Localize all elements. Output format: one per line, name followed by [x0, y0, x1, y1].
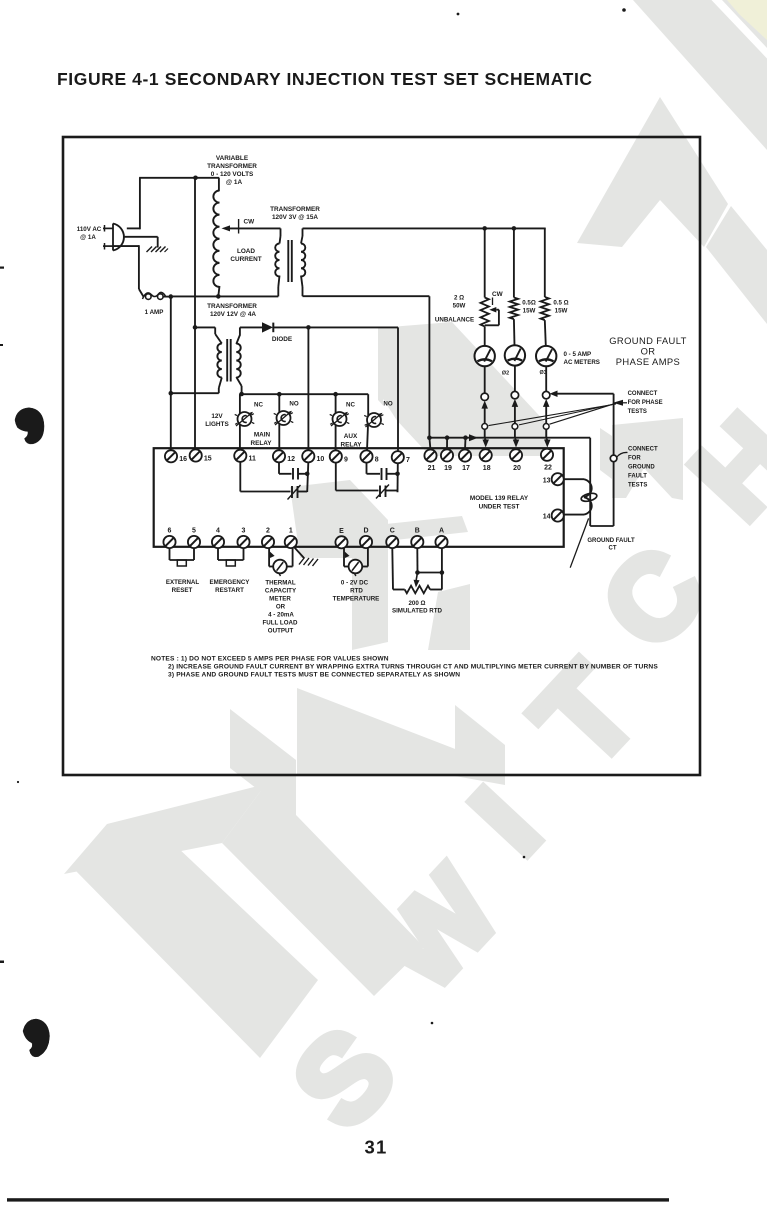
lamp L3 NC	[330, 412, 350, 426]
svg-text:3: 3	[242, 528, 246, 535]
svg-text:FIGURE 4-1 SECONDARY INJECTION: FIGURE 4-1 SECONDARY INJECTION TEST SET …	[57, 69, 593, 89]
pin label 20	[513, 465, 521, 472]
svg-text:OR: OR	[641, 346, 656, 357]
watermark chevron letter A	[577, 97, 728, 247]
wire plug mid to ground	[124, 237, 158, 248]
svg-text:A: A	[439, 528, 444, 535]
wire t13 to ct	[564, 478, 584, 480]
label MAIN RELAY	[250, 432, 272, 448]
wire lamp2 column	[278, 394, 280, 450]
wire t2 secondary bottom lead	[301, 276, 303, 297]
arrow down term3	[544, 429, 551, 447]
svg-text:CT: CT	[609, 546, 617, 552]
svg-text:1: 1	[289, 528, 293, 535]
thermal meter arrow	[270, 552, 275, 558]
node pot wiper	[415, 570, 420, 575]
wire neutral drop to t16	[170, 297, 172, 450]
svg-text:5: 5	[192, 528, 196, 535]
pin label 19	[444, 465, 452, 472]
ink blob upper left	[15, 408, 44, 444]
watermark chunk behind RTD bottomright	[428, 584, 470, 650]
svg-text:31: 31	[365, 1137, 388, 1158]
pin label 5	[192, 528, 196, 535]
watermark letter H	[667, 391, 767, 543]
transformer T3 core	[227, 339, 231, 382]
pin label A	[439, 528, 444, 535]
svg-text:TESTS: TESTS	[628, 483, 647, 489]
label 0.5 ohm 15W r2	[522, 300, 536, 315]
watermark yellow corner tint	[727, 0, 767, 40]
page number 31	[365, 1137, 388, 1158]
svg-text:FOR: FOR	[628, 456, 641, 462]
label EXTERNAL RESET	[166, 579, 200, 594]
svg-text:EMERGENCY: EMERGENCY	[210, 579, 251, 586]
svg-text:EXTERNAL: EXTERNAL	[166, 579, 200, 586]
wire t10 down	[307, 463, 308, 493]
terminal 17	[459, 450, 471, 462]
pin label 7	[406, 457, 410, 464]
wire r1 to meter	[484, 326, 486, 346]
svg-text:OUTPUT: OUTPUT	[268, 628, 294, 635]
wire bus to ct loop	[429, 437, 590, 439]
t1 ground diagonal	[295, 548, 305, 559]
meter M1	[475, 346, 495, 366]
capacitor C3 plates	[382, 468, 387, 480]
node diode t10 tee	[306, 325, 311, 330]
thermal meter M4 bracket	[269, 548, 293, 567]
watermark band right edge	[706, 206, 767, 324]
bus arrow	[469, 434, 478, 441]
svg-text:2 Ω: 2 Ω	[454, 295, 464, 302]
r1 wiper rheostat	[485, 307, 499, 325]
ct loop arcs	[584, 479, 592, 514]
svg-text:CONNECT: CONNECT	[628, 447, 658, 453]
svg-text:AC METERS: AC METERS	[564, 359, 600, 366]
svg-text:14: 14	[543, 514, 551, 521]
wire right riser down	[428, 296, 430, 438]
watermark letter W	[353, 845, 523, 1014]
terminal 9	[330, 450, 342, 462]
label 0-2V DC RTD TEMPERATURE	[333, 580, 380, 603]
label NO main	[289, 401, 298, 408]
diode D1	[262, 322, 273, 332]
wire t9 down	[336, 463, 379, 491]
svg-text:CW: CW	[492, 291, 504, 298]
pin label 3	[242, 528, 246, 535]
pin label 4	[216, 528, 220, 535]
banana point 1	[482, 424, 488, 430]
ground symbol near plug	[147, 247, 169, 253]
pin label 14	[543, 514, 551, 521]
pin label 12	[287, 456, 295, 463]
fuse F1 1 AMP	[143, 292, 166, 299]
watermark chunk behind caps	[290, 480, 388, 558]
ink blob lower left	[23, 1019, 50, 1057]
speck 4	[431, 1022, 434, 1025]
svg-text:13: 13	[543, 477, 551, 484]
node bus 21	[427, 435, 432, 440]
wire r1 top	[484, 228, 486, 297]
watermark chunk behind RTD left	[352, 534, 388, 650]
wire lamp3 column	[335, 394, 337, 450]
label NC main	[254, 402, 263, 409]
svg-text:DIODE: DIODE	[272, 336, 293, 343]
svg-text:200 Ω: 200 Ω	[408, 600, 425, 607]
svg-text:RESET: RESET	[172, 587, 193, 594]
node rail r2	[512, 226, 517, 231]
label UNBALANCE	[435, 317, 474, 324]
wire neutral rail	[171, 295, 278, 297]
title text	[57, 69, 593, 89]
svg-text:NOTES : 1) DO NOT EXCEED 5 AMP: NOTES : 1) DO NOT EXCEED 5 AMPS PER PHAS…	[151, 656, 389, 663]
svg-text:15: 15	[204, 455, 212, 462]
node neutral tee t16	[169, 391, 174, 396]
wire t3 sec top lead	[236, 327, 240, 344]
jack J3	[543, 391, 550, 398]
pin label 6	[168, 528, 172, 535]
svg-text:0.5Ω: 0.5Ω	[522, 300, 536, 307]
jack J1	[481, 393, 488, 400]
wire pot to A	[430, 548, 442, 590]
pin label 16	[179, 456, 187, 463]
pot wiper arrow	[414, 573, 420, 588]
terminal A	[435, 536, 447, 548]
pin label 21	[428, 465, 436, 472]
arrow up jack2	[512, 399, 519, 424]
svg-text:16: 16	[179, 456, 187, 463]
c2 variable slash	[288, 485, 301, 500]
wire lamp rail	[239, 393, 368, 395]
meter M5	[349, 560, 363, 576]
label CW r1	[492, 291, 504, 305]
svg-text:0 - 2V DC: 0 - 2V DC	[341, 580, 369, 587]
wire ct loop right riser	[613, 394, 615, 526]
label VARIABLE TRANSFORMER	[207, 155, 257, 186]
phase fan line 2	[519, 404, 616, 425]
terminal 7	[392, 451, 404, 463]
wire primary bottom horizontal	[171, 392, 219, 394]
node lamp rail 12	[277, 392, 282, 397]
svg-text:15W: 15W	[523, 308, 536, 315]
ct pointer line	[570, 518, 588, 567]
svg-text:110V AC: 110V AC	[77, 226, 102, 233]
capacitor C1 plates	[293, 468, 298, 480]
label GROUND FAULT OR PHASE AMPS	[609, 335, 687, 367]
jack ground fault	[610, 455, 617, 462]
speck 5	[17, 781, 19, 783]
ct core ellipse	[580, 492, 597, 503]
wire riser hot	[139, 178, 141, 230]
svg-text:UNBALANCE: UNBALANCE	[435, 317, 474, 324]
pin label C	[390, 528, 395, 535]
svg-text:SIMULATED RTD: SIMULATED RTD	[392, 608, 443, 615]
terminal 21	[424, 450, 436, 462]
wire B down	[416, 548, 418, 573]
c4 variable slash	[376, 485, 389, 499]
external reset switch S1	[170, 548, 195, 566]
phase fan arrowhead	[613, 400, 627, 406]
svg-text:120V 12V @ 4A: 120V 12V @ 4A	[210, 311, 256, 318]
label CONNECT FOR GROUND FAULT TESTS	[628, 447, 658, 489]
watermark letter T	[507, 639, 665, 794]
svg-text:4: 4	[216, 528, 220, 535]
wire vt top lead	[218, 178, 220, 191]
label 2 ohm 50W	[453, 295, 466, 310]
edge mark 3	[0, 961, 4, 964]
arrow up jack3	[543, 399, 550, 424]
svg-text:UNDER TEST: UNDER TEST	[479, 504, 520, 511]
svg-text:50W: 50W	[453, 303, 466, 310]
wire r3 to meter	[545, 320, 546, 346]
node c3 t7	[395, 472, 400, 477]
svg-text:0.5 Ω: 0.5 Ω	[553, 300, 568, 307]
label DIODE	[272, 336, 293, 343]
terminal 11	[234, 450, 246, 462]
terminal 20	[510, 449, 522, 461]
label CW	[244, 219, 256, 226]
svg-text:1 AMP: 1 AMP	[145, 309, 164, 316]
svg-text:FOR PHASE: FOR PHASE	[628, 400, 663, 406]
watermark chunk notch white	[383, 399, 420, 456]
svg-text:0 - 5 AMP: 0 - 5 AMP	[564, 351, 592, 358]
wire B-A link	[418, 572, 442, 574]
svg-text:D: D	[363, 528, 368, 535]
terminal 18	[480, 449, 492, 461]
svg-text:21: 21	[428, 465, 436, 472]
transformer T2 core	[288, 240, 292, 282]
svg-text:FULL LOAD: FULL LOAD	[263, 620, 298, 627]
svg-text:CONNECT: CONNECT	[628, 391, 658, 397]
label LOAD CURRENT	[230, 248, 261, 263]
wire c4 to t7col	[386, 490, 398, 492]
jack J2	[511, 391, 518, 398]
terminal 3	[237, 536, 249, 548]
svg-text:MAIN: MAIN	[254, 432, 271, 439]
watermark band left of wedge	[230, 709, 296, 819]
speck 3	[523, 856, 526, 859]
wire meter1 to jack	[484, 366, 486, 393]
meter M4	[273, 560, 287, 576]
svg-text:METER: METER	[269, 596, 291, 603]
label EMERGENCY RESTART	[210, 579, 251, 594]
svg-text:@ 1A: @ 1A	[226, 179, 243, 186]
wire t11 down	[240, 462, 290, 492]
svg-text:GROUND FAULT: GROUND FAULT	[587, 538, 635, 544]
wire t3 primary top lead	[195, 327, 222, 343]
edge mark 2	[0, 344, 3, 346]
notes line 2	[168, 664, 658, 671]
phase fan line 1	[550, 403, 617, 424]
resistor R1 2ohm	[481, 298, 489, 327]
svg-text:RESTART: RESTART	[215, 587, 244, 594]
svg-text:TESTS: TESTS	[628, 409, 647, 415]
svg-text:20: 20	[513, 465, 521, 472]
speck 2	[622, 8, 626, 12]
pin label 18	[483, 465, 491, 472]
variable transformer T1 coil	[213, 191, 219, 288]
lamp L1 NC	[235, 412, 255, 426]
ground symbol t1	[299, 558, 318, 567]
svg-text:RTD: RTD	[350, 588, 363, 595]
bottom rule	[7, 1198, 669, 1201]
svg-text:9: 9	[344, 456, 348, 463]
pin label 9	[344, 456, 348, 463]
pin label 2	[266, 528, 270, 535]
svg-text:CURRENT: CURRENT	[230, 256, 261, 263]
wire c2 to t10col	[298, 491, 308, 493]
meter M3	[536, 346, 556, 366]
svg-text:2: 2	[266, 528, 270, 535]
label MODEL 139 RELAY UNDER TEST	[470, 495, 529, 511]
svg-text:Ø2: Ø2	[502, 371, 509, 377]
watermark chunk X1b	[600, 428, 612, 479]
pin label 17	[462, 465, 470, 472]
capacitor C4 plates	[380, 486, 386, 498]
node t3 primary top tee	[193, 325, 198, 330]
label 200 ohm SIMULATED RTD	[392, 600, 443, 615]
banana point 3	[543, 424, 549, 430]
svg-text:TEMPERATURE: TEMPERATURE	[333, 596, 380, 603]
label TRANSFORMER 120V 12V	[207, 303, 257, 318]
speck 1	[457, 13, 460, 16]
node c1 t10	[305, 472, 310, 477]
pin label D	[363, 528, 368, 535]
wire meter3 to jack	[545, 366, 547, 391]
pin label 13	[543, 477, 551, 484]
svg-text:3) PHASE AND GROUND FAULT TEST: 3) PHASE AND GROUND FAULT TESTS MUST BE …	[168, 672, 460, 679]
transformer T2 primary coil	[275, 244, 279, 277]
watermark letter C	[577, 523, 729, 673]
node lamp rail 9	[333, 392, 338, 397]
wire t2 primary top lead	[280, 228, 281, 243]
pin label 15	[204, 455, 212, 462]
terminal 13	[552, 473, 564, 485]
AC plug P1	[103, 224, 124, 251]
label 1 AMP	[145, 309, 164, 316]
capacitor C2 plates	[292, 486, 298, 498]
pin label 10	[317, 456, 325, 463]
pin label E	[339, 528, 344, 535]
label NC aux	[346, 402, 355, 409]
svg-text:12V: 12V	[211, 413, 223, 420]
svg-text:8: 8	[375, 456, 379, 463]
watermark chunk behind RTD top	[386, 516, 468, 541]
svg-text:THERMAL: THERMAL	[265, 580, 295, 587]
pin label 11	[249, 456, 257, 463]
rtd meter arrow	[345, 552, 350, 558]
node pot B link A	[440, 570, 445, 575]
svg-text:CAPACITY: CAPACITY	[265, 588, 297, 595]
wire t8 down	[367, 463, 381, 474]
svg-text:MODEL 139 RELAY: MODEL 139 RELAY	[470, 495, 529, 502]
svg-text:TRANSFORMER: TRANSFORMER	[207, 303, 257, 310]
svg-text:TRANSFORMER: TRANSFORMER	[270, 206, 320, 213]
terminal 15	[190, 449, 202, 461]
ground jack pointer	[617, 452, 628, 457]
svg-text:22: 22	[544, 464, 552, 471]
label 110V AC @ 1A	[77, 226, 102, 241]
svg-text:GROUND FAULT: GROUND FAULT	[609, 335, 687, 346]
transformer T3 primary coil	[217, 344, 221, 378]
svg-text:11: 11	[249, 456, 257, 463]
wire t3 primary bottom lead	[219, 378, 222, 394]
node bus 17	[463, 435, 468, 440]
relay box	[154, 448, 564, 547]
lamp L2 NO	[274, 411, 294, 425]
watermark chunk X1	[612, 418, 683, 500]
terminal 5	[188, 536, 200, 548]
wire t10 column	[307, 327, 309, 450]
label phase2	[502, 371, 509, 377]
label GROUND FAULT CT	[587, 538, 635, 552]
emergency restart switch S2	[218, 548, 244, 566]
terminal E	[335, 536, 347, 548]
svg-text:FAULT: FAULT	[628, 474, 647, 480]
wire fuse to node16	[163, 296, 171, 298]
terminal 6	[163, 536, 175, 548]
node fused neutral	[169, 294, 174, 299]
svg-text:AUX: AUX	[344, 433, 358, 440]
wire t7 column	[397, 327, 399, 451]
wire t2 secondary top lead	[301, 228, 303, 243]
svg-text:NC: NC	[346, 402, 355, 409]
terminal C	[386, 536, 398, 548]
terminal 8	[360, 450, 372, 462]
svg-text:C: C	[390, 528, 395, 535]
wire drop t19	[446, 438, 448, 450]
svg-text:LIGHTS: LIGHTS	[205, 421, 229, 428]
phase fan line 3	[489, 404, 617, 426]
label THERMAL CAPACITY METER	[263, 580, 298, 635]
watermark chunk right of wedge	[455, 705, 505, 785]
wire r2 to meter	[513, 319, 516, 345]
wire c3 to t7	[387, 473, 398, 475]
wire secondary bottom rail	[303, 295, 430, 297]
wire c1 to t10	[298, 473, 307, 475]
transformer T3 secondary coil	[236, 344, 240, 378]
arrow up jack1	[481, 401, 488, 424]
terminal 4	[212, 536, 224, 548]
watermark chunk above terminals	[378, 322, 548, 456]
node variable transformer bottom	[216, 294, 221, 299]
watermark wedge under notes	[297, 688, 476, 776]
svg-text:2) INCREASE GROUND FAULT CURRE: 2) INCREASE GROUND FAULT CURRENT BY WRAP…	[168, 664, 658, 671]
wire diode cathode	[273, 326, 398, 328]
wire t12 down	[279, 463, 292, 474]
svg-text:17: 17	[462, 465, 470, 472]
svg-text:NO: NO	[289, 401, 298, 408]
svg-text:NO: NO	[383, 401, 392, 408]
svg-text:CW: CW	[244, 219, 256, 226]
wire t7 down	[397, 463, 399, 492]
svg-text:RELAY: RELAY	[250, 440, 272, 447]
edge mark 1	[0, 267, 4, 269]
resistor R3 0.5ohm	[541, 297, 549, 320]
terminal 10	[302, 450, 314, 462]
svg-text:18: 18	[483, 465, 491, 472]
wire drop t21	[429, 438, 430, 450]
wire lamp1 column	[239, 394, 241, 450]
node rail r1	[482, 226, 487, 231]
wire hot drop to t15	[194, 178, 196, 450]
arrow down term1	[482, 429, 489, 447]
svg-text:TRANSFORMER: TRANSFORMER	[207, 163, 257, 170]
rtd meter M5 bracket	[344, 548, 368, 567]
label phase3	[539, 370, 546, 376]
watermark letter S	[268, 1003, 421, 1153]
banana point 2	[512, 424, 518, 430]
svg-text:PHASE AMPS: PHASE AMPS	[616, 356, 680, 367]
